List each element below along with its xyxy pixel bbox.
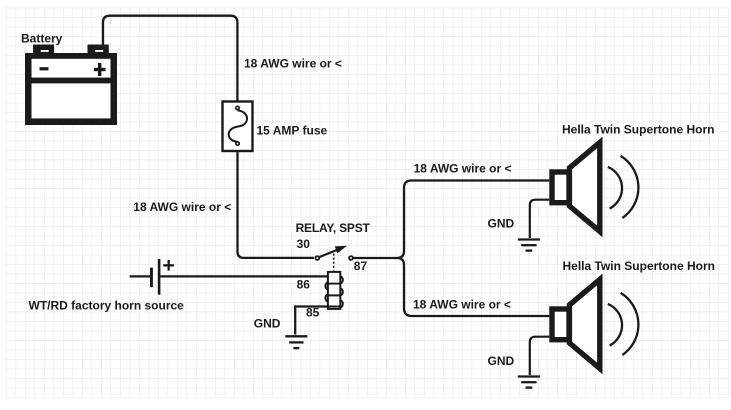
- svg-text:Hella Twin Supertone Horn: Hella Twin Supertone Horn: [562, 123, 714, 137]
- svg-text:18 AWG wire or <: 18 AWG wire or <: [133, 200, 231, 214]
- svg-text:RELAY, SPST: RELAY, SPST: [296, 221, 371, 235]
- svg-text:18 AWG wire or <: 18 AWG wire or <: [414, 162, 512, 176]
- svg-text:86: 86: [297, 278, 311, 292]
- svg-text:Hella Twin Supertone Horn: Hella Twin Supertone Horn: [563, 259, 715, 273]
- svg-text:30: 30: [297, 237, 311, 251]
- svg-text:WT/RD factory horn source: WT/RD factory horn source: [29, 299, 185, 313]
- svg-text:87: 87: [354, 259, 368, 273]
- svg-text:Battery: Battery: [21, 32, 63, 46]
- svg-text:18 AWG wire or <: 18 AWG wire or <: [244, 57, 342, 71]
- svg-text:18 AWG wire or <: 18 AWG wire or <: [413, 298, 511, 312]
- svg-text:15 AMP fuse: 15 AMP fuse: [257, 124, 328, 138]
- svg-text:GND: GND: [488, 217, 515, 231]
- svg-text:GND: GND: [488, 354, 515, 368]
- svg-text:GND: GND: [254, 316, 281, 330]
